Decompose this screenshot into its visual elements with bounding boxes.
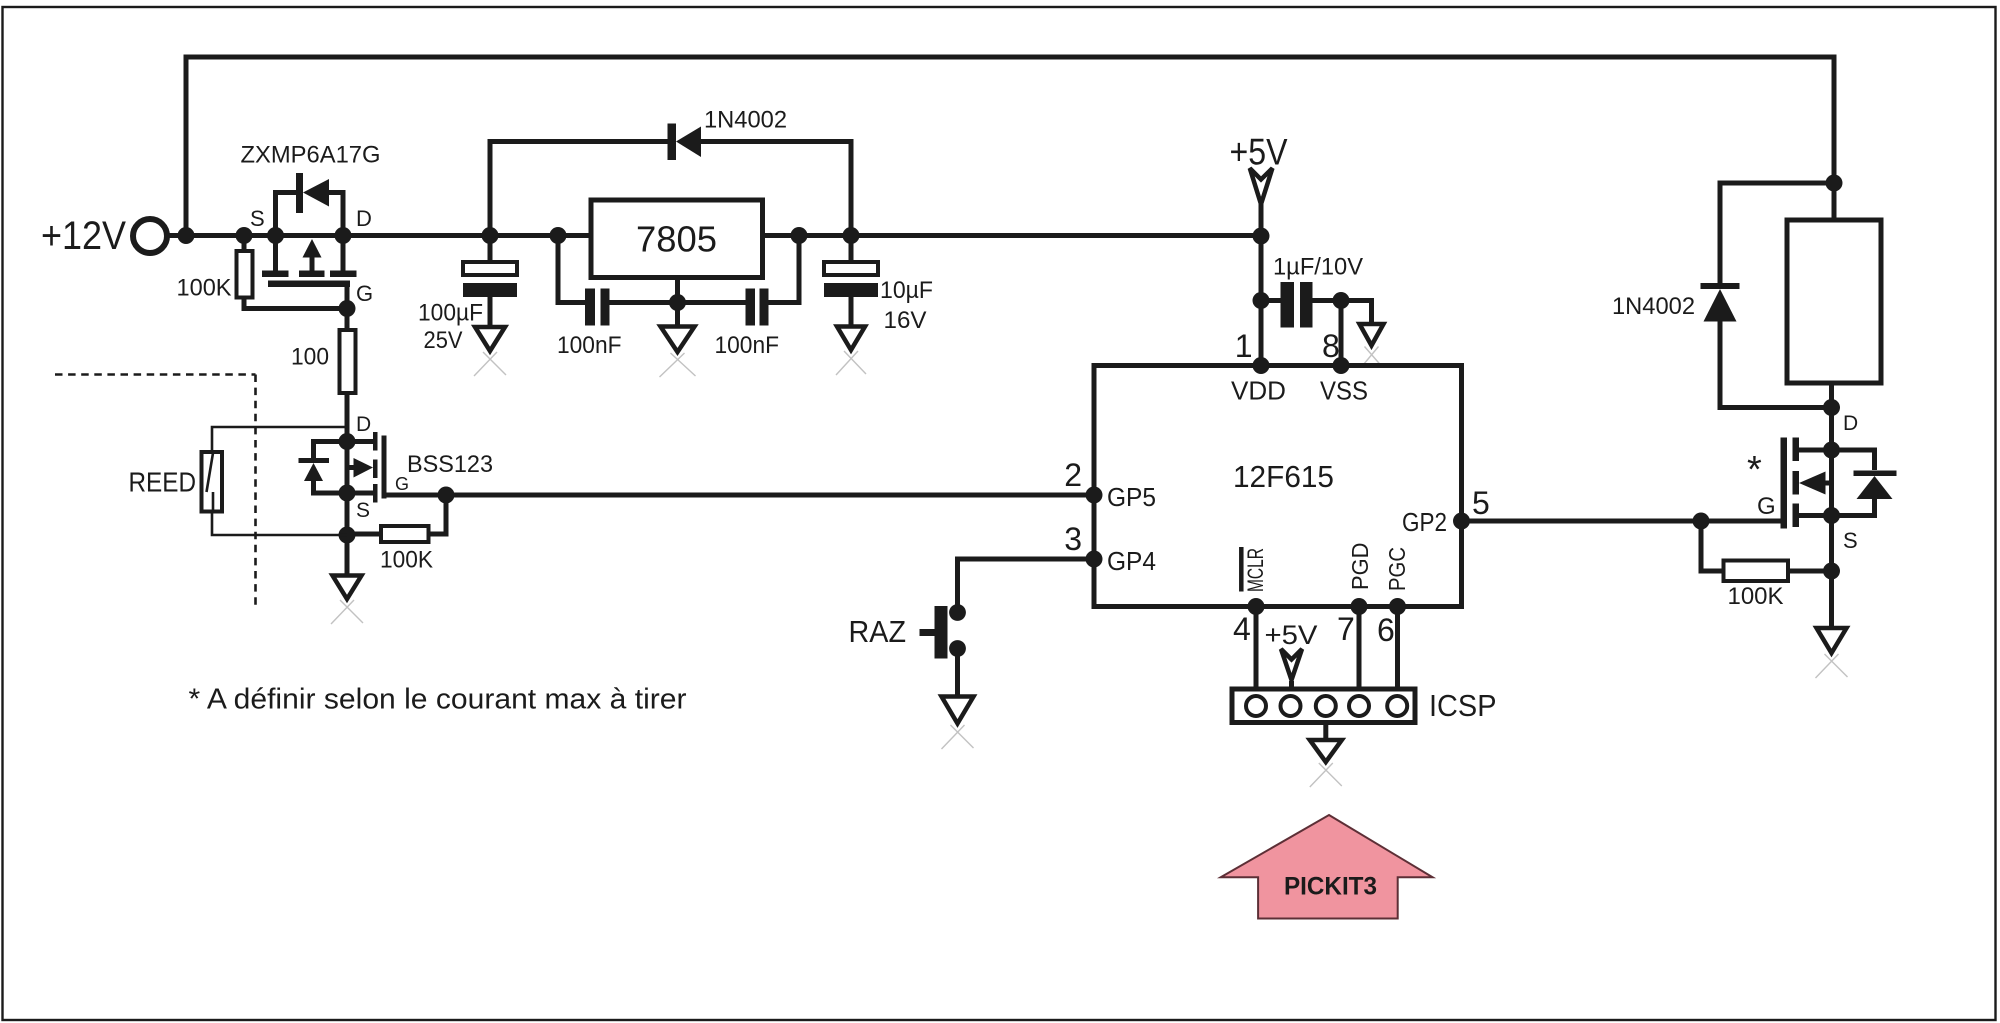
svg-text:25V: 25V [424,327,463,354]
node Q2 drain junction [339,433,356,450]
ground ICSP [1310,740,1342,787]
svg-text:ZXMP6A17G: ZXMP6A17G [241,142,381,169]
svg-text:*: * [1747,449,1762,491]
capacitor C4 10uF/16V electrolytic [824,236,933,335]
svg-text:1N4002: 1N4002 [704,107,787,134]
svg-text:3: 3 [1064,521,1082,557]
node rail-C1 junction [482,227,499,244]
svg-text:S: S [356,499,370,522]
svg-text:100K: 100K [380,547,433,574]
wire C5 to ground [1341,301,1372,326]
svg-text:7: 7 [1337,611,1355,647]
node pin4 MCLR [1248,598,1265,615]
svg-text:PGC: PGC [1384,547,1410,591]
svg-text:100nF: 100nF [557,332,622,359]
node Q1 source junction [267,227,284,244]
transistor Q2 BSS123 N-MOSFET [347,413,493,522]
power +5V arrow top [1230,132,1288,237]
svg-text:100K: 100K [1728,583,1784,610]
resistor R2 100 gate [291,309,356,442]
svg-text:1N4002: 1N4002 [1612,293,1695,320]
switch REED [129,427,348,535]
transistor Q1 ZXMP6A17G P-MOSFET [241,142,381,309]
wire ICSP ground pin [1323,723,1328,742]
capacitor C3 100nF output [678,236,800,360]
svg-text:16V: 16V [884,307,927,334]
svg-text:5: 5 [1472,485,1490,521]
switch RAZ pushbutton [849,559,1095,697]
node gate junction [1693,513,1710,530]
node pin6 PGC [1389,598,1406,615]
wire main +12V rail [167,233,1261,238]
svg-text:D: D [356,413,371,436]
resistor R4 100K output pulldown [1701,521,1832,610]
wire top rail [186,57,1834,236]
svg-text:G: G [395,474,409,494]
capacitor C1 100uF/25V electrolytic [418,236,517,355]
ground C5 [1359,324,1385,371]
svg-text:100µF: 100µF [418,300,483,327]
svg-text:GP4: GP4 [1107,546,1156,576]
wire pin7 to ICSP [1357,607,1362,690]
svg-text:2: 2 [1064,457,1082,493]
svg-text:S: S [1843,528,1858,553]
ground C1 [474,327,506,376]
load M1 output device [1787,183,1881,408]
resistor R3 100K gate pulldown [347,495,446,574]
svg-text:100K: 100K [177,275,232,302]
svg-text:1: 1 [1235,328,1253,364]
svg-text:1µF/10V: 1µF/10V [1273,254,1363,281]
svg-text:+5V: +5V [1230,132,1288,173]
node Q2 source junction [339,485,356,502]
capacitor C2 100nF input [557,236,678,360]
node pin8 VSS [1333,357,1350,374]
ground Q2 source [331,576,363,625]
svg-text:+5V: +5V [1265,620,1318,650]
wire C5 to VSS [1339,301,1344,366]
node rail-C2 junction [550,227,567,244]
wire GP5 net [446,493,1094,498]
transistor Q3 output N-MOSFET [1747,408,1858,554]
diode Q3 body diode [1832,450,1897,516]
wire Q3 source to ground [1829,516,1834,630]
diode Q2 body diode [299,442,348,494]
node pin7 PGD [1351,598,1368,615]
node output D junction [1823,399,1840,416]
IC U2 12F615 [1064,328,1490,648]
node rail-100K junction B [236,227,253,244]
ground RAZ [942,697,974,750]
node pin2 GP5 [1086,487,1103,504]
ground C4 [836,327,866,376]
ground 7805 [660,327,696,378]
svg-text:* A définir selon le courant m: * A définir selon le courant max à tirer [189,684,687,716]
wire GP2 to gate [1462,519,1784,524]
svg-text:VDD: VDD [1231,376,1286,406]
diode D1 1N4002 across 7805 [490,107,851,236]
svg-text:12F615: 12F615 [1233,459,1334,494]
node C5 right junction [1333,292,1350,309]
svg-text:RAZ: RAZ [849,614,907,649]
node rail-C4 junction [843,227,860,244]
wire source to ground [345,493,350,576]
wire pin4 to ICSP [1254,607,1259,690]
svg-text:D: D [1843,412,1858,435]
node Q3 drain junction [1823,442,1840,459]
node Q1 drain junction [335,227,352,244]
svg-text:G: G [356,281,373,306]
svg-text:100nF: 100nF [715,332,780,359]
arrow PICKIT3 [1221,815,1433,919]
svg-text:4: 4 [1233,611,1251,647]
node Q1 gate junction [339,300,356,317]
svg-text:10µF: 10µF [880,277,933,304]
node Q2 gate junction [438,487,455,504]
connector ICSP header [1232,688,1497,723]
resistor R1 100K pull-up [177,236,348,309]
ground Q3 source [1816,628,1848,678]
node source-ground junction [1823,563,1840,580]
node C5 left junction [1253,292,1270,309]
svg-text:REED: REED [129,467,197,498]
wire +5V down to VDD [1259,236,1264,366]
node pin5 GP2 [1453,513,1470,530]
svg-text:100: 100 [291,344,329,371]
regulator U1 7805 [558,200,799,303]
svg-text:GP2: GP2 [1402,507,1447,537]
svg-text:MCLR: MCLR [1243,548,1268,592]
svg-text:PICKIT3: PICKIT3 [1284,873,1377,901]
svg-text:VSS: VSS [1320,376,1368,406]
svg-text:BSS123: BSS123 [407,451,493,478]
diode D3 1N4002 flyback [1612,183,1834,408]
diode Q1 body diode [276,173,344,236]
node pin3 GP4 [1086,551,1103,568]
svg-text:+12V: +12V [41,214,126,258]
svg-text:G: G [1757,493,1776,520]
boundary dashed enclosure [55,375,256,609]
svg-text:GP5: GP5 [1107,482,1156,512]
node top-right junction [1826,175,1843,192]
svg-text:D: D [356,206,372,231]
wire pin6 to ICSP [1395,607,1400,690]
svg-text:6: 6 [1377,612,1395,648]
wire 7805 ground [675,303,680,328]
node source-ground junction [339,527,356,544]
node pin1 VDD [1253,357,1270,374]
node Q3 source junction [1823,507,1840,524]
node 7805 ground junction [669,294,686,311]
svg-text:S: S [250,206,265,231]
power +5V arrow ICSP [1265,620,1318,690]
svg-text:ICSP: ICSP [1429,688,1497,723]
svg-text:7805: 7805 [636,219,717,260]
node rail-C3 junction [791,227,808,244]
svg-text:PGD: PGD [1347,543,1373,591]
node +5V rail junction [1253,228,1270,245]
capacitor C5 1uF/10V [1261,254,1363,328]
connector +12V input [41,214,167,258]
node +12V junction A [178,227,195,244]
